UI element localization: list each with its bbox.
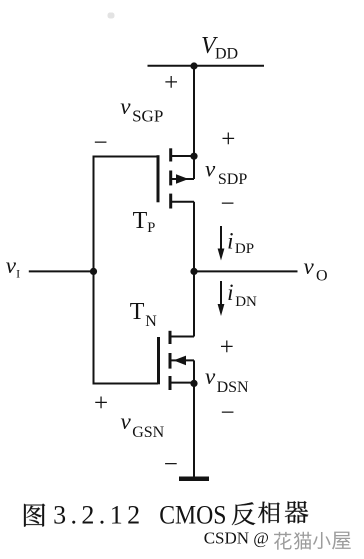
ground symbol xyxy=(179,477,209,482)
label v_DSN xyxy=(205,364,249,396)
wire gate bus to PMOS gate xyxy=(93,156,159,158)
svg-text:I: I xyxy=(16,266,20,280)
label V_DD xyxy=(201,33,238,63)
transistor T_P (PMOS) body xyxy=(158,148,194,208)
wire output to vO xyxy=(194,270,298,272)
svg-text:−: − xyxy=(221,399,235,426)
transistor T_N bulk arrow (points left) xyxy=(174,356,187,366)
svg-text:+: + xyxy=(94,390,108,417)
svg-text:T: T xyxy=(130,299,145,325)
svg-text:DSN: DSN xyxy=(217,379,249,396)
svg-text:v: v xyxy=(205,156,216,181)
label i_DN xyxy=(227,280,257,310)
junction node input vI xyxy=(90,268,97,275)
label - of v_DSN xyxy=(221,399,235,426)
wire gate bus to NMOS gate xyxy=(93,383,159,385)
label + of v_DSN xyxy=(220,334,234,361)
label v_O xyxy=(304,254,328,285)
svg-text:SGP: SGP xyxy=(132,107,163,126)
transistor T_N (NMOS) body xyxy=(159,331,195,390)
label - of v_SGP xyxy=(94,129,108,156)
svg-text:v: v xyxy=(6,253,17,278)
label - of v_SDP xyxy=(221,191,235,218)
svg-text:−: − xyxy=(94,129,108,156)
svg-text:i: i xyxy=(227,229,233,254)
svg-text:CSDN @: CSDN @ xyxy=(204,529,269,548)
svg-text:v: v xyxy=(120,94,131,119)
svg-text:DN: DN xyxy=(235,294,257,310)
transistor T_P bulk arrow (points right) xyxy=(176,174,189,184)
label + of v_SDP xyxy=(221,126,235,153)
svg-text:v: v xyxy=(121,409,132,434)
label v_SDP xyxy=(205,156,247,188)
junction node at VDD rail xyxy=(190,62,197,69)
current arrow i_DN xyxy=(218,281,225,316)
svg-text:DD: DD xyxy=(215,46,238,63)
wire PMOS drain down to output node xyxy=(193,202,195,337)
svg-text:N: N xyxy=(145,313,157,330)
svg-text:DP: DP xyxy=(235,241,254,257)
svg-text:SDP: SDP xyxy=(218,171,247,188)
label v_SGP xyxy=(120,94,163,125)
wire top VDD rail xyxy=(148,65,265,67)
label v_I xyxy=(6,253,20,280)
svg-text:+: + xyxy=(221,126,235,153)
faint scan artifact top-left xyxy=(108,13,115,19)
wire input from vI xyxy=(29,270,94,272)
svg-text:v: v xyxy=(205,364,216,389)
svg-text:O: O xyxy=(316,268,328,285)
svg-text:−: − xyxy=(221,191,235,218)
svg-text:3.2.12: 3.2.12 xyxy=(53,500,140,529)
junction node NMOS source xyxy=(190,380,197,387)
wire VDD vertical to PMOS source and bulk xyxy=(193,66,195,179)
svg-text:+: + xyxy=(220,334,234,361)
junction node PMOS source at VDD line xyxy=(190,153,197,160)
junction node output vO xyxy=(190,268,197,275)
svg-text:P: P xyxy=(147,220,155,236)
svg-text:i: i xyxy=(227,280,233,305)
wire left gate bus vertical xyxy=(93,156,95,385)
label v_GSN xyxy=(121,409,165,441)
label T_N xyxy=(130,299,158,330)
watermark CSDN @花猫小屋 xyxy=(204,529,269,548)
svg-text:v: v xyxy=(304,254,315,279)
svg-text:−: − xyxy=(164,451,178,478)
svg-text:T: T xyxy=(133,208,148,234)
wire NMOS bulk and source vertical to ground xyxy=(193,360,195,477)
label i_DP xyxy=(227,229,254,257)
label T_P xyxy=(133,208,156,236)
svg-text:+: + xyxy=(164,70,178,97)
svg-text:GSN: GSN xyxy=(132,424,164,441)
current arrow i_DP xyxy=(218,226,225,261)
label + of v_GSN xyxy=(94,390,108,417)
label + of v_SGP xyxy=(164,70,178,97)
label - of v_GSN xyxy=(164,451,178,478)
caption text 图 3.2.12 CMOS 反相器 xyxy=(24,504,45,527)
svg-text:CMOS: CMOS xyxy=(159,500,226,529)
